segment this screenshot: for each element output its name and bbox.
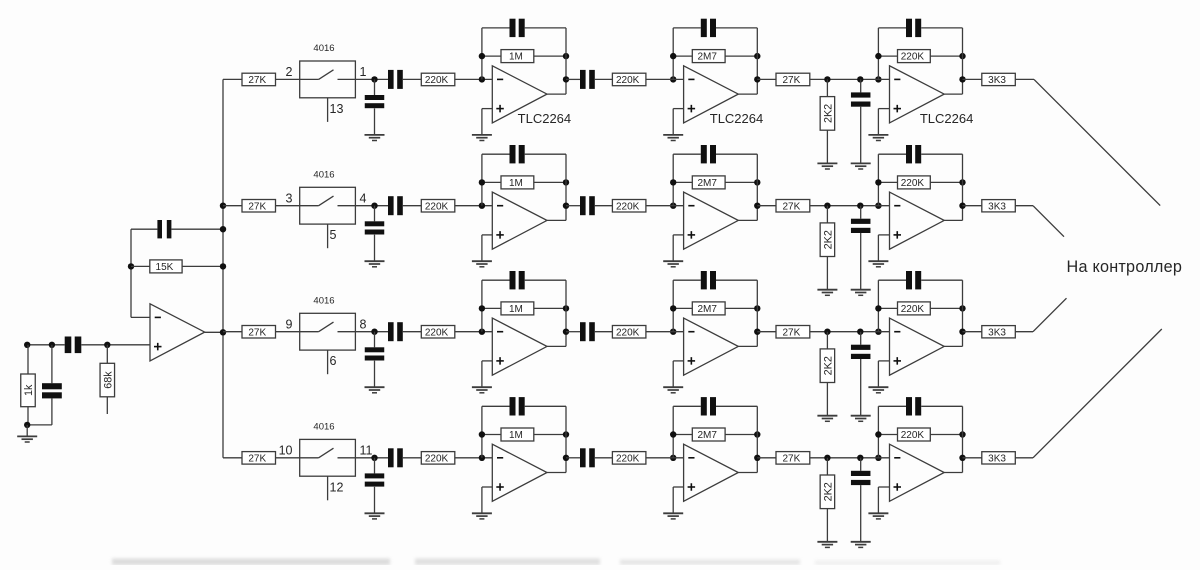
wire row2 27K to switch bbox=[276, 205, 301, 207]
wire row4 capA to 220K bbox=[403, 457, 422, 459]
resistor 3K3 row3 output bbox=[982, 326, 1016, 339]
node row4 stage1 inverting input bbox=[479, 455, 485, 461]
wire row2 stage3 shunt cap top lead bbox=[860, 206, 862, 219]
capacitor row4 series A bbox=[388, 448, 403, 467]
node row3 stage3 feedback right junction bbox=[959, 305, 965, 311]
wire row1 capA to 220K bbox=[403, 78, 422, 80]
wire U1 feedback cap right lead bbox=[171, 228, 223, 230]
node row1 stage2 output bbox=[754, 76, 760, 82]
svg-text:2K2: 2K2 bbox=[822, 356, 834, 375]
capacitor row2 stage2 feedback bbox=[701, 145, 716, 163]
wire row2 stage3 noninv lead bbox=[878, 234, 889, 236]
wire row4 2K2 ground lead bbox=[826, 509, 828, 542]
svg-text:2K2: 2K2 bbox=[822, 104, 834, 123]
resistor 27K row3 input bbox=[242, 326, 276, 339]
wire row2 capB to 220K bbox=[595, 205, 613, 207]
node row1 shunt cap junction bbox=[857, 76, 863, 82]
node row1 stage2 inverting input bbox=[670, 76, 676, 82]
wire row3 stage1 noninv ground vertical bbox=[481, 361, 483, 387]
wire row2 stage2 feedback top left bbox=[673, 153, 701, 155]
wire row2 stage2 feedback top right bbox=[716, 153, 757, 155]
svg-text:27K: 27K bbox=[783, 201, 801, 212]
resistor 2M7 row3 stage2 feedback bbox=[692, 302, 725, 315]
svg-text:4016: 4016 bbox=[313, 422, 334, 433]
wire row3 stage2 feedback res left lead bbox=[673, 307, 692, 309]
capacitor row1 shunt after switch bbox=[365, 95, 385, 108]
wire input right segment bbox=[81, 344, 150, 346]
node row2 stage3 inverting input bbox=[875, 203, 881, 209]
wire row3 capA to 220K bbox=[403, 331, 422, 333]
svg-text:2M7: 2M7 bbox=[697, 430, 717, 441]
wire row4 stage2 feedback top right bbox=[716, 405, 757, 407]
wire row2 stage3 input vertical bbox=[877, 154, 879, 206]
wire 68k bottom lead bbox=[106, 397, 108, 414]
wire row1 stage3 noninv lead bbox=[878, 108, 889, 110]
node row3 stage1 feedback right junction bbox=[563, 305, 569, 311]
wire U1 feedback left vertical bbox=[130, 229, 132, 317]
wire row4 output diagonal bbox=[1033, 329, 1162, 458]
resistor 27K row2 input bbox=[242, 200, 276, 213]
svg-text:27K: 27K bbox=[248, 327, 266, 338]
ground row1 shunt cap bbox=[365, 135, 385, 141]
node row4 stage2 feedback right junction bbox=[754, 431, 760, 437]
wire row3 27K to 2K2 node bbox=[810, 331, 890, 333]
wire row1 capB to 220K bbox=[595, 78, 613, 80]
wire row1 2K2 ground lead bbox=[826, 130, 828, 163]
svg-text:27K: 27K bbox=[248, 201, 266, 212]
capacitor row3 stage2 feedback bbox=[701, 271, 716, 289]
resistor 2K2 row2 shunt bbox=[820, 223, 835, 257]
wire row3 3K3 to bend bbox=[1015, 331, 1033, 333]
wire row4 stage3 feedback top left bbox=[878, 405, 906, 407]
wire row1 3K3 to bend bbox=[1015, 78, 1034, 80]
wire row1 stage2 feedback res right lead bbox=[725, 55, 757, 57]
capacitor row2 shunt after switch bbox=[365, 221, 385, 234]
capacitor row1 series A bbox=[388, 70, 403, 89]
node row4 stage3 feedback right junction bbox=[959, 431, 965, 437]
node row1 stage1 output bbox=[563, 76, 569, 82]
resistor 2K2 row4 shunt bbox=[820, 475, 835, 509]
resistor 27K row2 stage3 input bbox=[776, 200, 810, 213]
wire row4 bus to 27K bbox=[223, 457, 242, 459]
wire row4 capB to 220K bbox=[595, 457, 613, 459]
node row3 stage2 inverting input bbox=[670, 329, 676, 335]
resistor 220K row3 stage2 bbox=[612, 326, 646, 339]
node row1 stage1 feedback left junction bbox=[479, 53, 485, 59]
wire row3 220K to stage1 node bbox=[455, 331, 493, 333]
svg-text:13: 13 bbox=[330, 102, 344, 116]
wire row1 stage2 noninv ground vertical bbox=[672, 109, 674, 135]
wire 1k bottom lead bbox=[27, 407, 29, 425]
wire row4 stage1 noninv ground vertical bbox=[481, 487, 483, 513]
wire row2 stage3 feedback top left bbox=[878, 153, 906, 155]
wire row2 stage3 feedback top right bbox=[921, 153, 962, 155]
wire row3 stage3 shunt cap ground lead bbox=[860, 359, 862, 416]
wire row2 stage1 feedback top left bbox=[482, 153, 510, 155]
wire row1 2K2 top lead bbox=[826, 79, 828, 96]
svg-text:220K: 220K bbox=[425, 453, 449, 464]
node input-cap junction bbox=[49, 342, 55, 348]
resistor 2M7 row4 stage2 feedback bbox=[692, 428, 725, 441]
node row1 2K2 junction bbox=[824, 76, 830, 82]
node row4 stage2 inverting input bbox=[670, 455, 676, 461]
wire row1 stage1 noninv ground vertical bbox=[481, 109, 483, 135]
wire row3 stage3 noninv ground vertical bbox=[877, 361, 879, 387]
wire row3 stage3 noninv lead bbox=[878, 360, 889, 362]
svg-text:4016: 4016 bbox=[313, 43, 334, 54]
svg-text:3K3: 3K3 bbox=[988, 75, 1006, 86]
op-amp TLC2264 row3 stage3 bbox=[890, 318, 945, 375]
wire row3 stage1 feedback res right lead bbox=[534, 307, 566, 309]
wire row4 27K to 2K2 node bbox=[810, 457, 890, 459]
wire row1 stage1 input vertical bbox=[481, 28, 483, 80]
wire row2 27K to 2K2 node bbox=[810, 205, 890, 207]
svg-text:8: 8 bbox=[360, 317, 367, 331]
wire row3 27K to switch bbox=[276, 331, 301, 333]
wire row3 stage2 input vertical bbox=[672, 280, 674, 332]
wire row1 stage2 feedback top right bbox=[716, 27, 757, 29]
wire 68k top lead bbox=[106, 345, 108, 364]
svg-text:1k: 1k bbox=[23, 384, 35, 396]
node row3 switch output junction bbox=[371, 329, 377, 335]
wire row3 2K2 top lead bbox=[826, 332, 828, 349]
resistor 220K row4 stage2 bbox=[612, 452, 646, 465]
wire row1 stage3 input vertical bbox=[877, 28, 879, 80]
wire row4 stage3 feedback top right bbox=[921, 405, 962, 407]
svg-text:4016: 4016 bbox=[313, 170, 334, 181]
capacitor row1 stage2 feedback bbox=[701, 19, 716, 37]
resistor 2K2 row1 shunt bbox=[820, 97, 835, 131]
wire row2 output diagonal bbox=[1033, 206, 1064, 237]
ground row2 stage1 noninverting input bbox=[472, 261, 492, 267]
node row3 stage3 output bbox=[959, 329, 965, 335]
wire row4 stage1 input vertical bbox=[481, 406, 483, 458]
wire U1 output bbox=[205, 331, 223, 333]
wire row4 stage2 noninv lead bbox=[673, 486, 683, 488]
svg-text:1M: 1M bbox=[509, 304, 523, 315]
wire row3 capB to 220K bbox=[595, 331, 613, 333]
capacitor input series bbox=[65, 337, 82, 354]
resistor 3K3 row2 output bbox=[982, 200, 1016, 213]
capacitor row4 stage1 feedback bbox=[510, 397, 525, 415]
capacitor row3 series A bbox=[388, 322, 403, 341]
resistor 220K row2 stage1 bbox=[421, 200, 455, 213]
capacitor row1 stage1 feedback bbox=[510, 19, 525, 37]
op-amp TLC2264 row2 stage3 bbox=[890, 192, 945, 249]
wire row3 stage3 out to 3K3 bbox=[963, 331, 982, 333]
resistor 220K row1 stage3 feedback bbox=[898, 50, 931, 63]
resistor 1M row1 stage1 feedback bbox=[501, 50, 534, 63]
node row2 switch output junction bbox=[371, 203, 377, 209]
switch 4016 row4 bbox=[300, 439, 356, 476]
op-amp TLC2264 row2 stage1 bbox=[492, 192, 547, 249]
wire row3 switch to node bbox=[355, 331, 388, 333]
resistor 220K row1 stage2 bbox=[612, 73, 646, 86]
resistor 1M row2 stage1 feedback bbox=[501, 176, 534, 189]
node row4 stage2 feedback left junction bbox=[670, 431, 676, 437]
op-amp TLC2264 row1 stage3 bbox=[890, 66, 945, 123]
wire row4 4016 control pin bbox=[327, 476, 329, 500]
wire row4 shunt cap ground lead bbox=[374, 487, 376, 513]
capacitor row1 stage3 shunt bbox=[851, 92, 871, 106]
wire row4 stage1 feedback res left lead bbox=[482, 434, 501, 436]
wire row3 output diagonal bbox=[1033, 298, 1067, 332]
svg-text:1M: 1M bbox=[509, 430, 523, 441]
wire row1 stage3 noninv ground vertical bbox=[877, 109, 879, 135]
wire row2 220K to stage1 node bbox=[455, 205, 493, 207]
wire row3 stage2 noninv lead bbox=[673, 360, 683, 362]
wire row4 stage1 feedback res right lead bbox=[534, 434, 566, 436]
wire row2 bus to 27K bbox=[223, 205, 242, 207]
resistor 1M row4 stage1 feedback bbox=[501, 428, 534, 441]
resistor 2M7 row1 stage2 feedback bbox=[692, 50, 725, 63]
wire row2 stage1 output vertical bbox=[565, 154, 567, 220]
capacitor row3 shunt after switch bbox=[365, 347, 385, 360]
ground row1 stage3 shunt cap bbox=[851, 163, 871, 169]
svg-text:TLC2264: TLC2264 bbox=[518, 111, 571, 126]
wire row3 stage3 feedback top left bbox=[878, 279, 906, 281]
capacitor row4 stage3 shunt bbox=[851, 471, 871, 485]
node row2 stage3 output bbox=[959, 203, 965, 209]
svg-text:6: 6 bbox=[330, 354, 337, 368]
capacitor row4 shunt after switch bbox=[365, 473, 385, 486]
node row2 stage1 feedback right junction bbox=[563, 179, 569, 185]
svg-text:12: 12 bbox=[330, 480, 344, 494]
wire row1 27K to 2K2 node bbox=[810, 78, 890, 80]
node row3 stage3 feedback left junction bbox=[875, 305, 881, 311]
op-amp TLC2264 row1 stage2 bbox=[684, 66, 739, 123]
wire row3 capB leads bbox=[566, 331, 580, 333]
ground row2 2K2 bbox=[817, 290, 837, 296]
node row1 stage2 feedback right junction bbox=[754, 53, 760, 59]
wire row1 220K to stage2 node bbox=[646, 78, 684, 80]
node bus row2 tap bbox=[220, 203, 226, 209]
wire row1 stage1 feedback top left bbox=[482, 27, 510, 29]
ground row3 stage1 noninverting input bbox=[472, 387, 492, 393]
wire row1 stage2 out to 27K bbox=[757, 78, 776, 80]
wire row3 stage2 feedback res right lead bbox=[725, 307, 757, 309]
resistor 1k bbox=[21, 374, 36, 407]
svg-text:TLC2264: TLC2264 bbox=[710, 111, 763, 126]
cropped text remnant at bottom edge bbox=[112, 559, 1000, 566]
node row1 stage3 feedback left junction bbox=[875, 53, 881, 59]
svg-text:11: 11 bbox=[360, 443, 373, 457]
ground row4 stage1 noninverting input bbox=[472, 513, 492, 519]
wire row1 stage1 output apex lead bbox=[547, 93, 566, 95]
wire row4 stage2 input vertical bbox=[672, 406, 674, 458]
svg-text:2M7: 2M7 bbox=[697, 304, 717, 315]
wire row1 bus to 27K bbox=[223, 78, 242, 80]
node row1 stage3 output bbox=[959, 76, 965, 82]
capacitor row1 stage3 feedback bbox=[906, 19, 921, 37]
wire row1 stage3 feedback top right bbox=[921, 27, 962, 29]
svg-text:2K2: 2K2 bbox=[822, 482, 834, 501]
node row2 stage2 feedback left junction bbox=[670, 179, 676, 185]
node row3 stage1 feedback left junction bbox=[479, 305, 485, 311]
ground row4 stage2 noninverting input bbox=[663, 513, 683, 519]
wire row3 stage2 output apex lead bbox=[738, 345, 757, 347]
wire row1 stage1 feedback res left lead bbox=[482, 55, 501, 57]
node input bottom junction bbox=[24, 422, 30, 428]
wire row4 stage3 noninv ground vertical bbox=[877, 487, 879, 513]
wire row2 stage2 feedback res left lead bbox=[673, 181, 692, 183]
node bus feedback-cap tap bbox=[220, 226, 226, 232]
wire row2 capB leads bbox=[566, 205, 580, 207]
wire row4 stage2 output vertical bbox=[756, 406, 758, 472]
wire row2 220K to stage2 node bbox=[646, 205, 684, 207]
node row2 stage2 inverting input bbox=[670, 203, 676, 209]
wire row1 stage3 output apex lead bbox=[944, 93, 962, 95]
wire row3 stage1 feedback top left bbox=[482, 279, 510, 281]
wire row1 4016 control pin bbox=[327, 98, 329, 122]
wire row4 220K to stage1 node bbox=[455, 457, 493, 459]
wire row4 stage1 feedback top right bbox=[525, 405, 566, 407]
wire row2 stage1 input vertical bbox=[481, 154, 483, 206]
wire row2 shunt cap top lead bbox=[374, 206, 376, 222]
node row2 stage1 output bbox=[563, 203, 569, 209]
wire row2 stage1 output apex lead bbox=[547, 219, 566, 221]
svg-text:27K: 27K bbox=[783, 327, 801, 338]
wire row2 stage2 noninv ground vertical bbox=[672, 235, 674, 261]
wire row3 bus to 27K bbox=[223, 331, 242, 333]
wire row4 27K to switch bbox=[276, 457, 301, 459]
wire row3 stage2 feedback top right bbox=[716, 279, 757, 281]
wire row1 stage3 shunt cap ground lead bbox=[860, 107, 862, 164]
svg-text:1: 1 bbox=[360, 65, 367, 79]
wire input left segment bbox=[25, 344, 65, 346]
node row2 stage1 inverting input bbox=[479, 203, 485, 209]
op-amp TLC2264 row1 stage1 bbox=[492, 66, 547, 123]
node row1 stage2 feedback left junction bbox=[670, 53, 676, 59]
svg-text:15K: 15K bbox=[156, 262, 174, 273]
svg-text:TLC2264: TLC2264 bbox=[920, 111, 973, 126]
svg-text:220K: 220K bbox=[901, 304, 925, 315]
wire 15K left lead bbox=[131, 265, 150, 267]
capacitor row2 stage3 feedback bbox=[906, 145, 921, 163]
node row3 2K2 junction bbox=[824, 329, 830, 335]
wire row1 capB leads bbox=[566, 78, 580, 80]
node row4 stage2 output bbox=[754, 455, 760, 461]
wire row1 stage1 feedback res right lead bbox=[534, 55, 566, 57]
op-amp TLC2264 row4 stage3 bbox=[890, 444, 945, 501]
svg-text:220K: 220K bbox=[616, 201, 640, 212]
resistor 15K feedback bbox=[150, 260, 182, 273]
ground row4 2K2 bbox=[817, 542, 837, 548]
svg-text:220K: 220K bbox=[425, 327, 449, 338]
wire row3 stage3 output vertical bbox=[962, 280, 964, 346]
node row3 stage1 output bbox=[563, 329, 569, 335]
wire row1 shunt cap ground lead bbox=[374, 108, 376, 134]
node input-left junction bbox=[24, 342, 30, 348]
wire row2 stage1 feedback top right bbox=[525, 153, 566, 155]
svg-text:220K: 220K bbox=[425, 75, 449, 86]
wire row4 2K2 top lead bbox=[826, 458, 828, 475]
wire row3 stage3 output apex lead bbox=[944, 345, 962, 347]
node row4 shunt cap junction bbox=[857, 455, 863, 461]
op-amp TLC2264 row3 stage1 bbox=[492, 318, 547, 375]
wire row3 stage3 input vertical bbox=[877, 280, 879, 332]
op-amp TLC2264 row3 stage2 bbox=[684, 318, 739, 375]
svg-text:27K: 27K bbox=[248, 75, 266, 86]
wire row4 stage2 noninv ground vertical bbox=[672, 487, 674, 513]
wire row4 stage3 noninv lead bbox=[878, 486, 889, 488]
resistor 27K row4 stage3 input bbox=[776, 452, 810, 465]
node row4 stage1 output bbox=[563, 455, 569, 461]
ground row2 stage3 noninverting input bbox=[868, 261, 888, 267]
svg-text:27K: 27K bbox=[248, 453, 266, 464]
resistor 3K3 row4 output bbox=[982, 452, 1016, 465]
capacitor row3 stage1 feedback bbox=[510, 271, 525, 289]
wire row3 stage2 out to 27K bbox=[757, 331, 776, 333]
resistor 27K row3 stage3 input bbox=[776, 326, 810, 339]
wire row1 stage3 feedback res right lead bbox=[930, 55, 962, 57]
node row1 stage3 feedback right junction bbox=[959, 53, 965, 59]
wire row2 stage2 out to 27K bbox=[757, 205, 776, 207]
wire row3 stage3 feedback top right bbox=[921, 279, 962, 281]
wire row2 2K2 top lead bbox=[826, 206, 828, 223]
svg-text:2M7: 2M7 bbox=[697, 178, 717, 189]
switch 4016 row2 bbox=[300, 187, 356, 224]
node row4 switch output junction bbox=[371, 455, 377, 461]
svg-text:2M7: 2M7 bbox=[697, 52, 717, 63]
node row4 stage1 feedback left junction bbox=[479, 431, 485, 437]
switch 4016 row1 bbox=[300, 61, 356, 98]
resistor 68k bbox=[100, 363, 115, 397]
node row2 stage2 feedback right junction bbox=[754, 179, 760, 185]
node row1 stage1 feedback right junction bbox=[563, 53, 569, 59]
wire row2 stage2 output vertical bbox=[756, 154, 758, 220]
svg-text:5: 5 bbox=[330, 228, 337, 242]
wire row1 stage1 output vertical bbox=[565, 28, 567, 94]
wire row2 switch to node bbox=[355, 205, 388, 207]
node row1 stage3 inverting input bbox=[875, 76, 881, 82]
svg-text:220K: 220K bbox=[425, 201, 449, 212]
ground row3 stage2 noninverting input bbox=[663, 387, 683, 393]
ground row4 shunt cap bbox=[365, 513, 385, 519]
wire row3 220K to stage2 node bbox=[646, 331, 684, 333]
svg-text:220K: 220K bbox=[616, 327, 640, 338]
op-amp TLC2264 row2 stage2 bbox=[684, 192, 739, 249]
svg-text:9: 9 bbox=[286, 317, 293, 331]
wire row2 stage3 feedback res right lead bbox=[930, 181, 962, 183]
wire row1 27K to switch bbox=[276, 78, 301, 80]
wire row4 stage3 shunt cap top lead bbox=[860, 458, 862, 471]
capacitor input shunt bbox=[42, 383, 62, 398]
wire row1 switch to node bbox=[355, 78, 388, 80]
wire row4 stage1 feedback top left bbox=[482, 405, 510, 407]
svg-text:27K: 27K bbox=[783, 453, 801, 464]
wire row3 shunt cap ground lead bbox=[374, 361, 376, 387]
resistor 220K row1 stage1 bbox=[421, 73, 455, 86]
wire row2 shunt cap ground lead bbox=[374, 235, 376, 261]
wire row2 stage3 output vertical bbox=[962, 154, 964, 220]
capacitor row4 stage2 feedback bbox=[701, 397, 716, 415]
ground row3 2K2 bbox=[817, 416, 837, 422]
wire row3 stage1 output vertical bbox=[565, 280, 567, 346]
wire row2 stage3 shunt cap ground lead bbox=[860, 233, 862, 290]
node row2 stage3 feedback left junction bbox=[875, 179, 881, 185]
svg-text:220K: 220K bbox=[901, 178, 925, 189]
wire row1 stage3 feedback top left bbox=[878, 27, 906, 29]
wire row1 220K to stage1 node bbox=[455, 78, 493, 80]
wire row1 stage3 output vertical bbox=[962, 28, 964, 94]
wire row1 stage2 input vertical bbox=[672, 28, 674, 80]
capacitor row2 stage3 shunt bbox=[851, 219, 871, 233]
wire row1 stage1 feedback top right bbox=[525, 27, 566, 29]
op-amp TLC2264 row4 stage2 bbox=[684, 444, 739, 501]
ground row4 stage3 noninverting input bbox=[868, 513, 888, 519]
wire row1 stage2 output apex lead bbox=[738, 93, 757, 95]
